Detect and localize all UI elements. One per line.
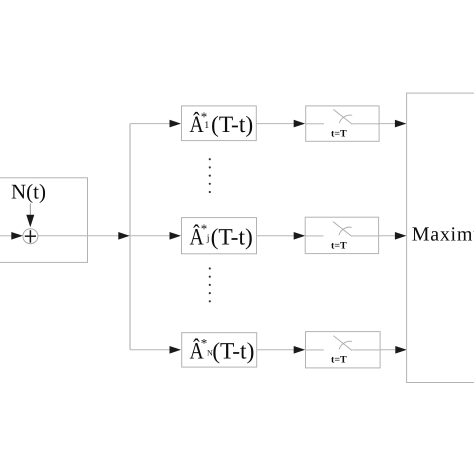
wire input from left edge (0, 235, 13, 237)
arrowhead into filter j (170, 232, 182, 240)
arrowhead into decision box (row 3) (395, 346, 407, 354)
svg-text:Maximum: Maximum (412, 223, 474, 245)
svg-text:1: 1 (204, 120, 209, 131)
wire branch to filter j (row 2) (130, 235, 171, 237)
arrowhead into sampler 2 (294, 232, 306, 240)
arrowhead into filter 1 (170, 120, 182, 128)
svg-text:t=T: t=T (331, 129, 347, 140)
vertical ellipsis between row 1 and row 2 (209, 158, 211, 193)
arrowhead into adder (down) (26, 215, 34, 227)
input box (noise adder enclosure, clipped at left) (0, 178, 88, 263)
wire sampler 2 to decision box (379, 235, 396, 237)
svg-text:t=T: t=T (331, 241, 347, 252)
vertical ellipsis between row 2 and row 3 (209, 267, 211, 302)
svg-text:(T-t): (T-t) (212, 338, 254, 364)
label N(t) (11, 179, 46, 203)
matched filter block A1 (182, 106, 257, 141)
matched filter block Aj (182, 218, 257, 254)
svg-text:N(t): N(t) (11, 179, 46, 203)
arrowhead into sampler 3 (294, 346, 306, 354)
wire filter N to sampler 3 (257, 349, 295, 351)
wire N(t) to adder (29, 204, 31, 217)
sampler S2 (switch, t=T) (305, 217, 378, 253)
sampler S1 (switch, t=T) (306, 106, 379, 141)
wire sampler 3 to decision box (379, 349, 396, 351)
wire filter j to sampler 2 (257, 235, 295, 237)
svg-text:(T-t): (T-t) (211, 112, 253, 138)
svg-text:(T-t): (T-t) (211, 224, 253, 250)
branch bus (vertical distribution wire) (129, 124, 131, 350)
wire adder to branch node (38, 235, 120, 237)
matched filter block AN (182, 333, 257, 367)
svg-text:j: j (206, 233, 210, 244)
arrowhead into adder (right) (11, 232, 22, 240)
wire sampler 1 to decision box (379, 123, 396, 125)
arrowhead into decision box (row 1) (395, 120, 407, 128)
arrowhead into branch node (118, 232, 130, 240)
arrowhead into sampler 1 (294, 120, 306, 128)
arrowhead into decision box (row 2) (395, 232, 407, 240)
wire branch to filter N (row 3) (130, 349, 171, 351)
decision box (maximum selector, clipped at right) (407, 93, 474, 382)
svg-text:t=T: t=T (331, 355, 347, 366)
adder U1 (summing junction) (23, 229, 38, 244)
wire filter 1 to sampler 1 (256, 123, 294, 125)
sampler S3 (switch, t=T) (306, 332, 381, 368)
arrowhead into filter N (170, 346, 182, 354)
wire branch to filter 1 (130, 123, 171, 125)
